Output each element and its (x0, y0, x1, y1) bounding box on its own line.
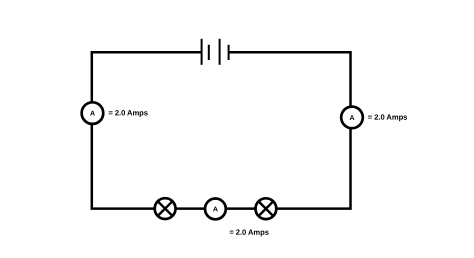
svg-text:= 2.0 Amps: = 2.0 Amps (229, 228, 269, 237)
svg-text:A: A (349, 115, 354, 122)
svg-text:= 2.0 Amps: = 2.0 Amps (108, 108, 148, 117)
svg-text:A: A (90, 111, 95, 118)
svg-text:= 2.0 Amps: = 2.0 Amps (368, 113, 408, 122)
svg-text:A: A (213, 206, 218, 213)
